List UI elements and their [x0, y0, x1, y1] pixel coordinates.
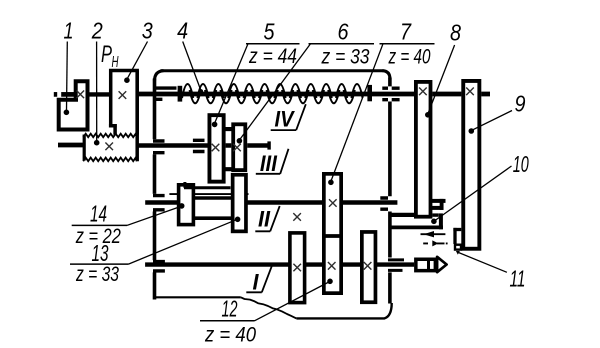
tool 11 holder left bar	[453, 228, 456, 244]
dot 9	[469, 128, 475, 134]
sleeve between gears 13 and 14	[193, 198, 232, 218]
svg-text:5: 5	[264, 19, 275, 45]
dot 2	[94, 140, 100, 146]
leader 7	[331, 44, 383, 181]
bearing left wall shaft IV	[153, 88, 177, 99]
rotation x-marks	[77, 88, 474, 272]
svg-text:8: 8	[450, 20, 461, 46]
dot 5	[212, 122, 218, 128]
gear block 5-6 coupling bars	[224, 129, 233, 169]
shaft III	[138, 143, 268, 148]
svg-text:z = 44: z = 44	[248, 45, 297, 68]
housing top line	[161, 69, 384, 72]
shaft II thin line through gear block	[169, 193, 248, 195]
dot 1	[64, 110, 70, 116]
tool 11 holder top bar	[453, 228, 461, 231]
housing bottom-left line	[153, 296, 241, 298]
svg-text:z = 40: z = 40	[388, 46, 431, 69]
crank disc left	[290, 233, 305, 303]
pump 2 input shaft	[58, 143, 84, 148]
svg-text:3: 3	[142, 18, 153, 44]
leader 5	[215, 44, 248, 123]
quill cone center	[437, 257, 447, 272]
svg-text:I: I	[253, 270, 260, 295]
svg-text:II: II	[258, 207, 271, 232]
svg-text:9: 9	[515, 91, 526, 117]
x gear 6	[233, 144, 241, 152]
svg-text:12: 12	[222, 296, 238, 322]
tool 11 insert	[455, 245, 461, 250]
x gear 5	[212, 144, 220, 152]
slide extension right of gear 8	[432, 213, 438, 216]
svg-text:7: 7	[400, 19, 412, 45]
hub shelf above gear block	[184, 182, 231, 188]
wire input shaft stub end	[54, 92, 57, 97]
leader 1	[66, 42, 69, 111]
worm left flange	[178, 86, 183, 102]
x crank left	[293, 264, 301, 272]
svg-text:H: H	[112, 54, 119, 71]
x crank pin	[293, 213, 301, 221]
leader lines	[67, 42, 513, 321]
dot 12	[327, 279, 333, 285]
fork nut 10 bottom prong	[431, 206, 444, 210]
svg-text:1: 1	[64, 18, 74, 44]
dot 14	[179, 203, 185, 209]
dot 13	[235, 217, 241, 223]
leader 2	[96, 42, 98, 141]
svg-text:z = 33: z = 33	[321, 46, 370, 69]
shelf 6	[309, 43, 375, 45]
worm right flange	[367, 85, 372, 101]
svg-text:14: 14	[90, 201, 107, 227]
label I underline	[246, 266, 271, 292]
slide bracket bar from wall to gear 8	[390, 213, 415, 217]
label shelves	[70, 44, 435, 321]
shelf 13	[70, 263, 129, 265]
gear 14 (z=22)	[179, 185, 194, 225]
housing top-right corner	[383, 71, 390, 79]
x motor 1	[77, 91, 85, 99]
housing bottom break squiggle	[241, 297, 297, 318]
shelf 7	[380, 43, 435, 45]
x gear 9	[466, 88, 474, 96]
label III underline	[256, 149, 289, 174]
shelf 12	[200, 320, 255, 322]
shaft IV	[139, 92, 490, 97]
wire motor input shaft	[61, 92, 74, 97]
shelf 14	[72, 224, 127, 226]
svg-text:11: 11	[510, 266, 526, 292]
leader 4	[183, 42, 201, 91]
leader 14	[127, 206, 181, 225]
x gear 12	[328, 262, 336, 270]
arrow dashed right	[423, 242, 447, 244]
housing left wall	[153, 79, 157, 300]
worm 4 coil	[182, 84, 363, 103]
svg-text:z = 33: z = 33	[75, 263, 119, 286]
gear 7 / gear 12 column (z=40, z=40)	[324, 174, 341, 293]
label IV underline	[271, 104, 306, 130]
housing right wall	[388, 78, 392, 304]
shelf 5	[246, 43, 300, 45]
bearing left wall shaft III	[153, 141, 165, 153]
dot 3	[124, 77, 130, 83]
dot 8	[425, 112, 431, 118]
x crank right	[364, 262, 372, 270]
svg-text:z = 22: z = 22	[75, 225, 121, 248]
bearing right wall shaft IV	[382, 88, 399, 100]
bearing shaft I right end	[388, 260, 404, 271]
svg-text:4: 4	[177, 18, 188, 44]
motor 1	[59, 81, 88, 129]
shaft roman labels underlines and slashes	[246, 104, 305, 292]
bearing left wall shaft II	[153, 196, 165, 210]
x gear 7	[329, 199, 337, 207]
fork nut 10 right closure	[440, 199, 444, 210]
dot 6	[237, 138, 243, 144]
dot 4	[199, 89, 203, 93]
slide bracket lower bar	[390, 226, 443, 230]
dot 10	[431, 219, 437, 225]
leader 8	[428, 45, 455, 114]
quill body	[416, 259, 436, 270]
svg-text:III: III	[260, 151, 278, 176]
gear 6 (z=33)	[233, 124, 245, 170]
svg-text:2: 2	[91, 18, 103, 44]
clutch box 3	[109, 71, 137, 135]
leader 9	[472, 111, 512, 131]
bearing shaft III before gear 5	[193, 140, 205, 151]
housing bottom-right line	[296, 303, 391, 318]
housing top-left corner	[155, 71, 164, 81]
wire shaft motor to clutch 3	[86, 92, 111, 96]
leader 11	[459, 253, 507, 273]
leader dots	[64, 77, 475, 284]
pump 2 left edge	[83, 135, 86, 161]
x pump 2	[105, 143, 113, 151]
gear 8 (on shaft IV)	[416, 82, 431, 217]
crank disc right	[362, 232, 376, 302]
leader 3	[127, 42, 147, 79]
bearing right wall shaft II	[380, 198, 388, 209]
x gear 8	[419, 88, 427, 96]
svg-text:6: 6	[338, 19, 349, 45]
leader 10	[435, 166, 512, 221]
pump 2 body	[83, 134, 137, 162]
leader 6	[240, 44, 311, 140]
fork nut 10 top prong	[431, 199, 446, 203]
quill seam	[427, 259, 430, 271]
svg-text:P: P	[101, 41, 112, 68]
divider between gear 7 and gear 12	[322, 234, 343, 238]
shaft III end cap	[267, 141, 270, 149]
dot 7	[328, 180, 334, 186]
svg-text:z = 40: z = 40	[204, 324, 256, 347]
clutch box 3 / pump right edge	[135, 71, 139, 162]
gear 13 (z=33)	[233, 175, 246, 232]
svg-text:IV: IV	[275, 106, 296, 131]
svg-text:10: 10	[513, 151, 529, 177]
leader 12	[255, 282, 330, 321]
label II underline	[255, 206, 279, 231]
shaft II	[145, 200, 397, 204]
shaft I	[145, 262, 414, 266]
leader 13	[129, 219, 238, 264]
gear 5 (z=44)	[209, 115, 223, 181]
x clutch 3	[119, 91, 127, 99]
gear 9 column (on shaft IV)	[463, 81, 479, 249]
arrow solid left	[421, 233, 446, 235]
bearing left wall shaft I	[153, 262, 165, 271]
tool 11 tip	[456, 251, 460, 255]
slide vertical connector	[439, 213, 443, 229]
